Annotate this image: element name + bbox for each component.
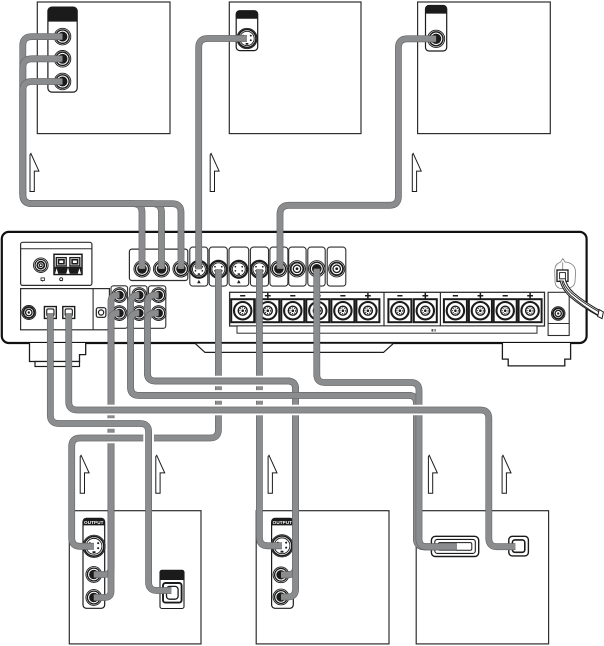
svg-text:OUTPUT: OUTPUT [273, 520, 293, 525]
svg-text:OUTPUT: OUTPUT [84, 520, 104, 525]
